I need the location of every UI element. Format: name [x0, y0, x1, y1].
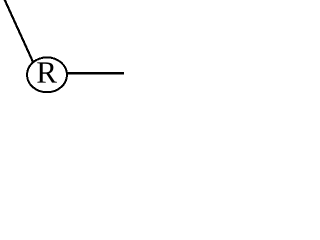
resistor R: circle symbol — [27, 57, 67, 92]
label R (serif glyph path) inside circle — [37, 62, 57, 82]
wire: horizontal lead from resistor circle to the right — [66, 72, 124, 74]
wire: diagonal lead from top-left down to resistor circle — [4, 0, 33, 62]
